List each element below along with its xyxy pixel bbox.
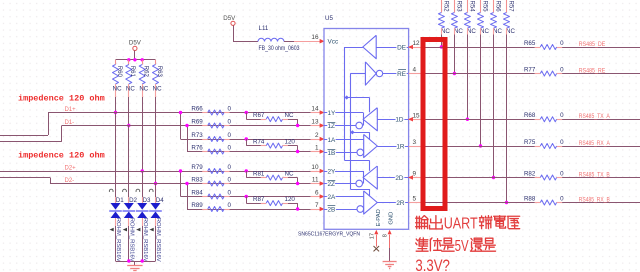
svg-text:U5: U5 [325, 15, 333, 22]
svg-text:NC: NC [454, 28, 463, 35]
svg-text:NC: NC [467, 28, 476, 35]
svg-text:1A: 1A [328, 137, 337, 144]
svg-text:R61: R61 [129, 66, 135, 78]
svg-text:2D: 2D [395, 175, 404, 182]
svg-text:D2: D2 [129, 197, 137, 204]
svg-text:D5V: D5V [129, 40, 142, 47]
svg-text:15: 15 [413, 112, 421, 119]
svg-text:Vcc: Vcc [328, 39, 339, 46]
svg-text:0: 0 [560, 139, 564, 146]
svg-text:ROHM_RSB16V: ROHM_RSB16V [155, 218, 161, 262]
svg-text:R56: R56 [495, 1, 501, 13]
svg-text:D1: D1 [116, 197, 124, 204]
svg-text:2: 2 [315, 132, 319, 139]
svg-text:5: 5 [413, 196, 417, 203]
svg-text:R54: R54 [468, 1, 474, 13]
svg-text:D5V: D5V [223, 15, 236, 22]
svg-text:16: 16 [311, 34, 319, 41]
svg-text:NC: NC [493, 28, 502, 35]
svg-text:0: 0 [560, 66, 564, 73]
svg-text:R68: R68 [524, 112, 536, 119]
svg-text:2B: 2B [328, 206, 336, 213]
svg-text:RS485_RX_B: RS485_RX_B [579, 196, 610, 203]
svg-text:R81: R81 [253, 171, 265, 178]
svg-text:L11: L11 [259, 25, 269, 32]
svg-text:1B: 1B [328, 150, 336, 157]
svg-text:R75: R75 [524, 139, 536, 146]
svg-text:RS485_RX_A: RS485_RX_A [579, 140, 611, 147]
svg-text:11: 11 [312, 177, 319, 184]
svg-text:RS485_RE: RS485_RE [579, 67, 606, 74]
svg-text:D3: D3 [143, 197, 151, 204]
svg-text:9: 9 [413, 171, 417, 178]
svg-text:0: 0 [560, 112, 564, 119]
svg-text:R69: R69 [191, 118, 203, 125]
svg-text:NC: NC [285, 112, 294, 119]
svg-text:FB_30 ohm_0603: FB_30 ohm_0603 [259, 46, 301, 52]
svg-text:NC: NC [285, 171, 294, 178]
svg-text:R52: R52 [442, 1, 448, 13]
svg-text:RE: RE [397, 71, 406, 78]
svg-text:2R: 2R [396, 200, 405, 207]
svg-text:1D: 1D [395, 117, 404, 124]
svg-text:impedence 120 ohm: impedence 120 ohm [18, 151, 105, 161]
svg-text:10: 10 [311, 164, 319, 171]
svg-text:6: 6 [315, 190, 319, 197]
svg-text:impedence 120 ohm: impedence 120 ohm [18, 93, 105, 103]
svg-text:R62: R62 [143, 66, 149, 78]
svg-text:0: 0 [228, 144, 232, 151]
svg-text:ROHM_RSB16V: ROHM_RSB16V [128, 218, 134, 262]
svg-text:0: 0 [560, 170, 564, 177]
svg-text:D1-: D1- [65, 120, 75, 126]
svg-text:0: 0 [560, 40, 564, 47]
svg-text:0: 0 [228, 118, 232, 125]
svg-text:2Y: 2Y [328, 168, 337, 175]
svg-text:0: 0 [228, 176, 232, 183]
svg-text:3: 3 [413, 139, 417, 146]
svg-text:0: 0 [228, 132, 232, 139]
svg-text:2Z: 2Z [328, 181, 336, 188]
svg-text:GND: GND [389, 212, 395, 225]
svg-text:DE: DE [397, 44, 406, 51]
svg-text:RS485_TX_B: RS485_TX_B [579, 171, 610, 178]
svg-text:R77: R77 [524, 66, 536, 73]
svg-text:R79: R79 [191, 164, 203, 171]
svg-text:1: 1 [315, 145, 319, 152]
svg-text:1R: 1R [396, 143, 405, 150]
svg-text:RS485_DE: RS485_DE [579, 41, 606, 48]
svg-text:D1+: D1+ [65, 107, 77, 113]
svg-text:ROHM_RSB16V: ROHM_RSB16V [142, 218, 148, 262]
svg-text:NC: NC [153, 86, 162, 93]
svg-text:R66: R66 [191, 105, 203, 112]
svg-text:12: 12 [413, 40, 421, 47]
svg-text:R67: R67 [253, 112, 265, 119]
svg-text:1Y: 1Y [328, 110, 337, 117]
svg-text:0: 0 [228, 105, 232, 112]
svg-text:13: 13 [311, 119, 319, 126]
svg-text:R73: R73 [191, 132, 203, 139]
svg-text:D2+: D2+ [65, 166, 77, 172]
svg-text:R60: R60 [116, 66, 122, 78]
svg-text:R55: R55 [482, 1, 488, 13]
svg-text:UART: UART [444, 216, 478, 233]
svg-text:R76: R76 [191, 144, 203, 151]
svg-text:0: 0 [228, 164, 232, 171]
svg-text:R53: R53 [455, 1, 461, 13]
svg-text:NC: NC [126, 86, 135, 93]
svg-text:NC: NC [506, 28, 515, 35]
svg-text:4: 4 [413, 67, 417, 74]
svg-text:0: 0 [228, 189, 232, 196]
svg-text:NC: NC [139, 86, 148, 93]
svg-text:0: 0 [228, 202, 232, 209]
svg-text:R83: R83 [191, 176, 203, 183]
svg-text:3.3V?: 3.3V? [415, 256, 450, 272]
svg-text:R87: R87 [253, 196, 265, 203]
svg-text:NC: NC [113, 86, 122, 93]
svg-text:120: 120 [285, 139, 296, 146]
svg-text:D2-: D2- [65, 178, 75, 184]
svg-text:SN65C1167ERGYR_VQFN: SN65C1167ERGYR_VQFN [298, 231, 360, 237]
svg-text:2A: 2A [328, 194, 337, 201]
svg-text:R89: R89 [191, 202, 203, 209]
svg-text:R74: R74 [253, 139, 265, 146]
svg-text:R84: R84 [191, 189, 203, 196]
svg-text:R82: R82 [524, 170, 536, 177]
svg-text:NC: NC [441, 28, 450, 35]
svg-text:R88: R88 [524, 195, 536, 202]
svg-text:R65: R65 [524, 40, 536, 47]
svg-text:R57: R57 [508, 1, 514, 13]
svg-text:14: 14 [311, 106, 319, 113]
svg-text:R63: R63 [156, 66, 162, 78]
svg-text:5V: 5V [455, 238, 469, 255]
svg-text:E-PAD: E-PAD [376, 209, 382, 226]
svg-text:RS485_TX_A: RS485_TX_A [579, 113, 611, 120]
svg-text:0: 0 [560, 195, 564, 202]
svg-text:NC: NC [480, 28, 489, 35]
svg-text:120: 120 [285, 196, 296, 203]
svg-text:8: 8 [382, 234, 388, 237]
svg-text:7: 7 [315, 202, 319, 209]
svg-text:D4: D4 [156, 197, 164, 204]
svg-text:ROHM_RSB16V: ROHM_RSB16V [115, 218, 121, 262]
svg-text:1Z: 1Z [328, 123, 336, 130]
